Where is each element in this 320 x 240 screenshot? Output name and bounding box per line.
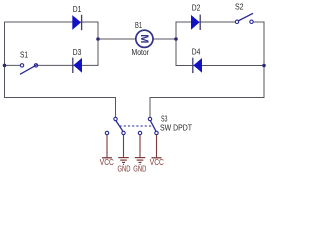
svg-text:S3: S3 (161, 115, 168, 124)
svg-text:Motor: Motor (132, 48, 150, 57)
svg-text:D3: D3 (73, 48, 82, 57)
svg-text:D4: D4 (192, 48, 201, 57)
svg-text:VCC: VCC (100, 158, 114, 167)
svg-text:B1: B1 (135, 21, 142, 30)
svg-text:S1: S1 (20, 51, 28, 60)
svg-text:GND: GND (118, 164, 131, 173)
svg-text:D1: D1 (73, 5, 82, 14)
svg-text:SW DPDT: SW DPDT (160, 124, 192, 133)
svg-text:D2: D2 (192, 4, 201, 13)
svg-text:S2: S2 (235, 3, 244, 12)
svg-text:VCC: VCC (150, 158, 164, 167)
svg-text:M: M (138, 34, 150, 43)
svg-text:GND: GND (133, 164, 146, 173)
